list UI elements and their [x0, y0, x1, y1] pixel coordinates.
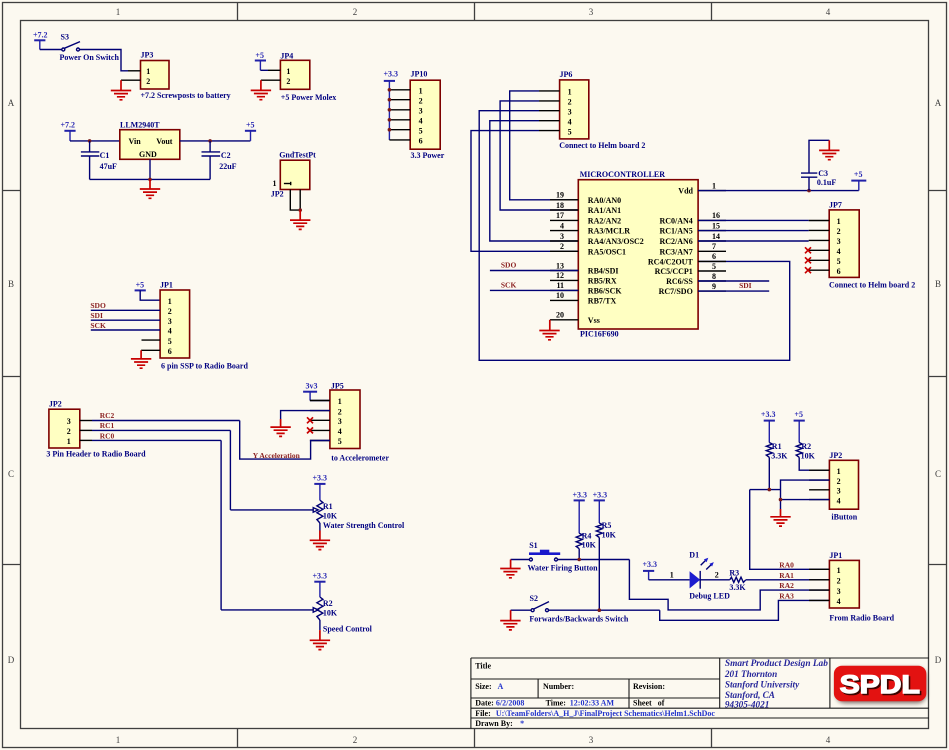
junction	[807, 189, 811, 193]
svg-text:3: 3	[837, 487, 841, 496]
LED D1 Debug LED	[689, 550, 730, 600]
wire	[140, 290, 160, 300]
wire Y acceleration net RC2-JP5.5	[240, 421, 330, 460]
wire	[260, 69, 268, 71]
svg-text:12: 12	[556, 271, 564, 280]
svg-text:Vin: Vin	[129, 137, 142, 146]
svg-text:3v3: 3v3	[306, 381, 318, 390]
svg-text:2: 2	[568, 98, 572, 107]
junction R5	[598, 608, 602, 612]
svg-text:RB6/SCK: RB6/SCK	[588, 286, 623, 295]
svg-text:2: 2	[837, 577, 841, 586]
wire SDO	[490, 270, 578, 272]
svg-text:R3: R3	[729, 568, 739, 577]
connector JP3	[121, 51, 169, 89]
svg-text:Stanford University: Stanford University	[725, 679, 800, 689]
ground JP1.6	[131, 350, 151, 368]
svg-text:JP4: JP4	[280, 51, 293, 60]
svg-text:U:\TeamFolders\A_H_J\FinalProj: U:\TeamFolders\A_H_J\FinalProject Schema…	[496, 709, 716, 718]
ground iButton	[770, 509, 790, 526]
junction	[779, 498, 783, 502]
svg-text:2: 2	[286, 77, 290, 86]
wire S2 to JP1.4 RA3	[660, 600, 830, 620]
svg-text:3: 3	[568, 107, 572, 116]
svg-text:+7.2: +7.2	[61, 121, 76, 130]
svg-text:RC1/AN5: RC1/AN5	[659, 227, 692, 236]
svg-text:MICROCONTROLLER: MICROCONTROLLER	[580, 170, 666, 179]
wire R1 junction row	[750, 489, 781, 491]
ground R1	[310, 531, 330, 550]
svg-text:3.3K: 3.3K	[729, 583, 746, 592]
svg-text:RA5/OSC1: RA5/OSC1	[588, 247, 626, 256]
svg-text:1: 1	[286, 67, 290, 76]
pin stubs JP1 radio	[809, 569, 829, 600]
testpoint JP2 GndTestPt	[271, 151, 316, 199]
svg-text:19: 19	[556, 191, 564, 200]
svg-text:10K: 10K	[323, 511, 338, 520]
svg-text:0.1uF: 0.1uF	[817, 178, 836, 187]
svg-text:4: 4	[560, 221, 564, 230]
wire	[91, 309, 160, 311]
svg-text:GND: GND	[139, 150, 157, 159]
svg-text:2: 2	[353, 735, 358, 745]
svg-text:RC2/AN6: RC2/AN6	[659, 237, 692, 246]
connector JP5 accelerometer	[310, 381, 360, 448]
svg-text:+3.3: +3.3	[384, 70, 399, 79]
svg-text:Vss: Vss	[588, 316, 600, 325]
address Smart Product Design Lab	[724, 658, 828, 709]
svg-text:iButton: iButton	[831, 513, 857, 522]
switch S2 Forwards/Backwards	[529, 594, 628, 624]
capacitor C2 22uF	[202, 141, 237, 180]
wire	[511, 559, 530, 561]
svg-text:4: 4	[568, 117, 572, 126]
svg-text:+5: +5	[246, 121, 255, 130]
connector JP1 From Radio Board	[829, 551, 859, 608]
resistor R3 3.3K	[729, 568, 746, 592]
switch S1 Water Firing Button	[528, 541, 599, 572]
ground	[290, 210, 310, 229]
wire JP6.3 to RC4 loop	[479, 111, 790, 361]
svg-text:5: 5	[338, 437, 342, 446]
svg-text:3: 3	[837, 237, 841, 246]
svg-text:Sheet: Sheet	[633, 699, 652, 708]
svg-text:C1: C1	[100, 151, 110, 160]
svg-text:R2: R2	[323, 599, 333, 608]
svg-text:2: 2	[715, 571, 719, 580]
svg-text:+7.2 Screwposts to battery: +7.2 Screwposts to battery	[141, 91, 231, 100]
svg-text:RC0/AN4: RC0/AN4	[659, 216, 692, 225]
junction	[577, 558, 581, 562]
svg-text:LLM2940T: LLM2940T	[120, 120, 160, 129]
no-connect X JP5.3	[307, 417, 313, 423]
wire	[511, 609, 531, 611]
svg-text:1: 1	[116, 735, 121, 745]
svg-text:Power On Switch: Power On Switch	[60, 53, 120, 62]
svg-text:JP1: JP1	[160, 280, 173, 289]
svg-text:11: 11	[556, 281, 564, 290]
svg-text:1: 1	[273, 179, 277, 188]
wire	[310, 400, 330, 402]
wire RC6 pin8	[698, 280, 769, 282]
no-connect X JP5.4	[307, 427, 313, 433]
svg-text:RC4/C2OUT: RC4/C2OUT	[648, 257, 694, 266]
svg-text:RA4/AN3/OSC2: RA4/AN3/OSC2	[588, 237, 644, 246]
junction	[148, 178, 152, 182]
svg-text:*: *	[520, 719, 524, 728]
svg-text:RC5/CCP1: RC5/CCP1	[655, 267, 693, 276]
svg-text:Revision:: Revision:	[633, 682, 665, 691]
ground Vss	[539, 320, 559, 340]
svg-text:1: 1	[116, 7, 121, 17]
svg-text:Drawn By:: Drawn By:	[475, 719, 513, 728]
svg-text:6 pin SSP to Radio Board: 6 pin SSP to Radio Board	[161, 361, 248, 370]
svg-text:to Accelerometer: to Accelerometer	[331, 453, 389, 462]
svg-text:2: 2	[560, 242, 564, 251]
power +3.3 R1	[313, 474, 328, 484]
svg-text:Vdd: Vdd	[678, 186, 693, 195]
svg-text:+5 Power Molex: +5 Power Molex	[281, 93, 337, 102]
wire	[700, 579, 730, 581]
ground above C3	[819, 140, 839, 159]
svg-text:+3.3: +3.3	[761, 410, 776, 419]
wire RC1 to R1 wiper	[230, 430, 318, 512]
svg-text:22uF: 22uF	[219, 162, 236, 171]
ground S2	[500, 610, 520, 630]
svg-text:3: 3	[338, 417, 342, 426]
svg-text:Smart Product Design Lab: Smart Product Design Lab	[725, 658, 828, 668]
svg-text:1: 1	[837, 566, 841, 575]
svg-text:A: A	[498, 682, 504, 691]
microcontroller U1 PIC16F690	[550, 170, 726, 329]
svg-text:JP7: JP7	[829, 201, 842, 210]
wire	[180, 140, 251, 142]
connector JP10	[389, 70, 440, 150]
wire RC1	[92, 429, 230, 431]
junction	[768, 488, 772, 492]
svg-text:1: 1	[419, 86, 423, 95]
connector JP1 SSP	[141, 280, 190, 358]
wire	[649, 579, 690, 581]
connector JP7	[809, 201, 860, 278]
svg-text:10K: 10K	[323, 609, 338, 618]
resistor R5 10K	[596, 500, 616, 610]
power +3.3 R5	[593, 490, 608, 500]
svg-text:6: 6	[419, 137, 423, 146]
ground	[140, 179, 160, 198]
wire RC0	[92, 439, 221, 441]
wire power bus	[388, 81, 390, 140]
svg-text:10: 10	[556, 291, 564, 300]
svg-text:2: 2	[837, 227, 841, 236]
regulator LM2940T	[120, 120, 180, 159]
resistor R4 10K	[576, 500, 596, 559]
svg-text:C2: C2	[221, 151, 231, 160]
wire JP5.2 to ground	[281, 411, 330, 419]
svg-text:B: B	[8, 279, 14, 289]
svg-text:RA3: RA3	[779, 592, 794, 601]
wire S1 to JP1.3 RA2	[629, 560, 829, 610]
wire RC1 to JP7.2	[698, 230, 809, 232]
svg-text:PIC16F690: PIC16F690	[580, 330, 619, 339]
svg-text:4: 4	[168, 327, 172, 336]
svg-text:JP2: JP2	[271, 190, 284, 199]
svg-text:JP2: JP2	[49, 400, 62, 409]
wire RC2	[92, 420, 240, 422]
svg-text:13: 13	[556, 261, 564, 270]
junction	[298, 208, 302, 212]
wire JP2.2 to ground	[781, 480, 830, 509]
svg-text:RC2: RC2	[100, 411, 115, 420]
svg-text:JP2: JP2	[829, 451, 842, 460]
wire ground rail	[90, 159, 211, 179]
svg-text:R1: R1	[772, 442, 782, 451]
svg-text:JP5: JP5	[331, 381, 344, 390]
connector JP6	[539, 70, 589, 139]
wire	[40, 49, 62, 51]
svg-text:RC1: RC1	[100, 421, 115, 430]
svg-text:3: 3	[589, 7, 594, 17]
power +7.2 battery	[33, 31, 48, 50]
svg-text:File:: File:	[475, 709, 491, 718]
svg-text:1: 1	[67, 437, 71, 446]
no-connect X JP7.5	[805, 257, 811, 263]
wire RC0 to JP7.1	[698, 219, 809, 221]
svg-text:47uF: 47uF	[100, 162, 117, 171]
svg-text:18: 18	[556, 201, 564, 210]
svg-text:5: 5	[419, 126, 423, 135]
connector JP2 iButton	[809, 451, 858, 509]
resistor R1 3.3K	[766, 421, 788, 490]
svg-text:Time:: Time:	[546, 699, 566, 708]
svg-text:6: 6	[168, 347, 172, 356]
junction	[88, 139, 92, 143]
svg-text:A: A	[8, 98, 15, 108]
svg-text:5: 5	[168, 337, 172, 346]
svg-text:Water Strength Control: Water Strength Control	[323, 521, 405, 530]
svg-text:C: C	[935, 469, 941, 479]
svg-text:3: 3	[168, 317, 172, 326]
svg-text:Debug LED: Debug LED	[689, 591, 730, 600]
svg-text:Connect to Helm board 2: Connect to Helm board 2	[829, 281, 915, 290]
ground	[270, 419, 290, 436]
power +3.3	[384, 70, 399, 81]
svg-text:S1: S1	[529, 541, 537, 550]
ground R2	[310, 630, 330, 650]
svg-text:RA0/AN0: RA0/AN0	[588, 196, 621, 205]
svg-text:5: 5	[568, 127, 572, 136]
svg-text:RA2: RA2	[779, 581, 794, 590]
svg-text:1: 1	[168, 297, 172, 306]
svg-text:Water Firing Button: Water Firing Button	[528, 563, 599, 572]
title block text	[475, 662, 715, 729]
svg-text:6: 6	[712, 252, 716, 261]
svg-text:+3.3: +3.3	[573, 490, 588, 499]
svg-text:JP3: JP3	[141, 51, 154, 60]
svg-text:2: 2	[419, 96, 423, 105]
svg-text:2: 2	[353, 7, 358, 17]
svg-text:Forwards/Backwards Switch: Forwards/Backwards Switch	[529, 614, 628, 623]
power +3.3 R4	[573, 490, 588, 500]
power +5 R2 iButton	[794, 410, 805, 421]
power +5 at C3	[851, 170, 866, 191]
svg-text:+7.2: +7.2	[33, 31, 48, 40]
svg-text:Size:: Size:	[475, 682, 491, 691]
resistor R2 10K	[796, 421, 829, 471]
svg-text:RC3/AN7: RC3/AN7	[659, 247, 692, 256]
no-connect X JP7.4	[805, 247, 811, 253]
potentiometer R1 10K	[317, 484, 338, 531]
wire	[70, 140, 120, 142]
wire JP6.1 to RA0	[510, 91, 579, 200]
connector JP4	[261, 51, 310, 89]
potentiometer R2 10K	[317, 582, 338, 630]
svg-text:GndTestPt: GndTestPt	[279, 151, 316, 160]
wire RC7 pin9 SDI	[698, 290, 769, 292]
svg-text:RA3/MCLR: RA3/MCLR	[588, 227, 630, 236]
svg-text:S2: S2	[530, 594, 538, 603]
svg-text:7: 7	[712, 242, 716, 251]
svg-text:10K: 10K	[801, 451, 816, 460]
svg-text:SCK: SCK	[90, 321, 106, 330]
svg-text:From Radio Board: From Radio Board	[829, 614, 894, 623]
svg-text:3: 3	[419, 106, 423, 115]
svg-text:2: 2	[146, 77, 150, 86]
svg-text:+5: +5	[136, 280, 145, 289]
junction dots on power bus	[388, 88, 392, 132]
wire	[91, 319, 160, 321]
ground	[251, 80, 271, 100]
svg-text:1: 1	[568, 88, 572, 97]
ground S1	[500, 560, 520, 578]
svg-text:9: 9	[712, 282, 716, 291]
svg-text:16: 16	[712, 211, 720, 220]
capacitor C3 0.1uF	[801, 140, 836, 190]
wire	[91, 329, 160, 331]
svg-text:1: 1	[837, 217, 841, 226]
power +3.3 LED	[643, 560, 658, 580]
svg-text:D1: D1	[689, 550, 699, 559]
wire down to RA0	[750, 490, 830, 570]
capacitor C1 47uF	[81, 141, 117, 180]
svg-text:5: 5	[712, 262, 716, 271]
svg-text:+3.3: +3.3	[593, 490, 608, 499]
svg-text:2: 2	[67, 427, 71, 436]
svg-text:D: D	[935, 655, 942, 665]
svg-text:3: 3	[560, 232, 564, 241]
svg-text:R5: R5	[602, 521, 612, 530]
svg-text:SDI: SDI	[739, 281, 752, 290]
svg-text:JP1: JP1	[829, 551, 842, 560]
svg-text:1: 1	[146, 67, 150, 76]
wire	[80, 50, 129, 71]
svg-text:SDI: SDI	[90, 311, 103, 320]
svg-text:4: 4	[837, 496, 841, 505]
power +5 JP1	[135, 280, 146, 290]
svg-text:C: C	[8, 469, 14, 479]
svg-text:Speed Control: Speed Control	[323, 624, 373, 633]
switch S3 Power On Switch	[60, 32, 120, 62]
svg-text:RA1/AN1: RA1/AN1	[588, 206, 621, 215]
svg-text:1: 1	[338, 397, 342, 406]
svg-text:3: 3	[67, 417, 71, 426]
svg-text:1: 1	[837, 467, 841, 476]
svg-text:RB7/TX: RB7/TX	[588, 296, 617, 305]
power +3.3 R2	[313, 572, 328, 582]
svg-text:10K: 10K	[582, 540, 597, 549]
connector JP2 radio header	[49, 400, 92, 448]
svg-text:+5: +5	[255, 51, 264, 60]
svg-text:4: 4	[837, 597, 841, 606]
wire JP6.2 to RA1	[500, 101, 578, 210]
wire RC2 to JP7.3	[698, 240, 809, 242]
svg-text:B: B	[935, 279, 941, 289]
svg-text:3.3 Power: 3.3 Power	[411, 151, 445, 160]
svg-text:17: 17	[556, 211, 564, 220]
svg-text:3: 3	[837, 587, 841, 596]
wire SCK	[490, 289, 578, 291]
svg-text:SDO: SDO	[90, 301, 106, 310]
svg-text:94305-4021: 94305-4021	[725, 699, 769, 709]
power +3.3 R1 iButton	[761, 410, 776, 421]
svg-text:R1: R1	[323, 502, 333, 511]
svg-text:1: 1	[670, 571, 674, 580]
pin stubs JP5	[310, 401, 330, 441]
power +5	[255, 51, 266, 70]
svg-text:A: A	[935, 98, 942, 108]
logo SPDL	[834, 666, 926, 704]
svg-text:201 Thornton: 201 Thornton	[724, 669, 777, 679]
pin stubs JP2 iButton	[809, 470, 829, 499]
svg-text:JP10: JP10	[411, 70, 428, 79]
svg-text:4: 4	[837, 247, 841, 256]
svg-text:Connect to Helm board 2: Connect to Helm board 2	[559, 141, 645, 150]
svg-text:SDO: SDO	[501, 261, 517, 270]
svg-text:RC7/SDO: RC7/SDO	[659, 287, 693, 296]
svg-text:Vout: Vout	[156, 137, 172, 146]
svg-text:RA2/AN2: RA2/AN2	[588, 216, 621, 225]
svg-text:5: 5	[837, 257, 841, 266]
wire Vdd pin1	[698, 190, 859, 192]
no-connect X JP7.6	[805, 267, 811, 273]
power +7.2 regulator input	[61, 121, 76, 141]
svg-text:4: 4	[419, 116, 423, 125]
svg-text:+3.3: +3.3	[313, 572, 328, 581]
svg-text:3: 3	[589, 735, 594, 745]
svg-text:R2: R2	[801, 442, 811, 451]
wire JP6.4 to RA4	[490, 121, 579, 241]
svg-text:+5: +5	[794, 410, 803, 419]
svg-text:SPDL: SPDL	[840, 671, 920, 699]
wire S2 right	[549, 609, 660, 611]
svg-text:3 Pin Header to Radio Board: 3 Pin Header to Radio Board	[46, 450, 146, 459]
svg-text:RA0: RA0	[779, 560, 794, 569]
svg-text:RB4/SDI: RB4/SDI	[588, 267, 619, 276]
svg-text:R4: R4	[582, 532, 592, 541]
svg-text:6/2/2008: 6/2/2008	[496, 699, 524, 708]
svg-text:Y Acceleration: Y Acceleration	[253, 451, 301, 460]
title block frame	[471, 658, 929, 729]
svg-text:2: 2	[837, 477, 841, 486]
svg-text:2: 2	[168, 307, 172, 316]
svg-text:1: 1	[712, 181, 716, 190]
wire JP2.4	[781, 499, 830, 501]
svg-text:RA1: RA1	[779, 571, 794, 580]
svg-text:4: 4	[826, 7, 831, 17]
svg-text:4: 4	[338, 427, 342, 436]
svg-text:+3.3: +3.3	[313, 474, 328, 483]
svg-text:of: of	[658, 699, 665, 708]
